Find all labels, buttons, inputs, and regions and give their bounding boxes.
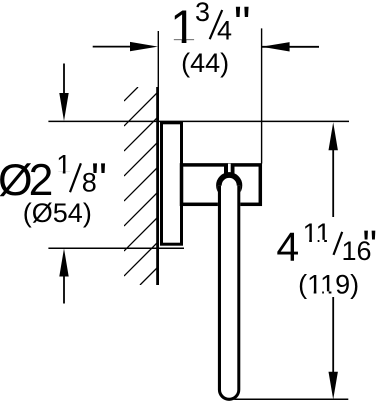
- svg-text:(Ø54): (Ø54): [23, 198, 92, 228]
- label 1 3/4" (44): [170, 0, 250, 78]
- svg-text:": ": [91, 155, 107, 204]
- svg-text:3: 3: [195, 0, 210, 27]
- holder body: [182, 165, 261, 204]
- svg-text:": ": [363, 222, 378, 268]
- dimension line 54 bottom segment with up arrow: [59, 248, 68, 303]
- wall hatching: [124, 87, 158, 285]
- svg-text:1: 1: [170, 0, 196, 53]
- label 4 11/16" (119): [276, 218, 377, 300]
- label Ø2 1/8" (Ø54): [0, 150, 107, 228]
- svg-text:4: 4: [276, 224, 299, 270]
- dimension line 119 bottom segment with down arrow: [329, 297, 338, 400]
- svg-text:4: 4: [217, 15, 232, 45]
- svg-text:(44): (44): [181, 48, 229, 78]
- dimension line 44 right segment with arrow: [262, 42, 319, 51]
- extension line top horizontal: [48, 120, 349, 122]
- dimension line 44 left segment with arrow: [93, 42, 158, 51]
- svg-text:": ": [234, 0, 251, 49]
- pivot stub: [224, 165, 235, 175]
- arm tube: [218, 186, 240, 401]
- pivot ring: [219, 175, 240, 196]
- dimension line 54 top segment with down arrow: [59, 64, 68, 122]
- extension line bottom horizontal: [228, 398, 349, 400]
- extension line left vertical: [157, 31, 159, 87]
- extension line bottom-left horizontal: [48, 247, 184, 249]
- wall plate (rosette): [162, 123, 182, 244]
- wall line: [156, 87, 159, 285]
- extension line right vertical: [261, 28, 263, 163]
- dimension line 119 top segment with up arrow: [329, 122, 338, 217]
